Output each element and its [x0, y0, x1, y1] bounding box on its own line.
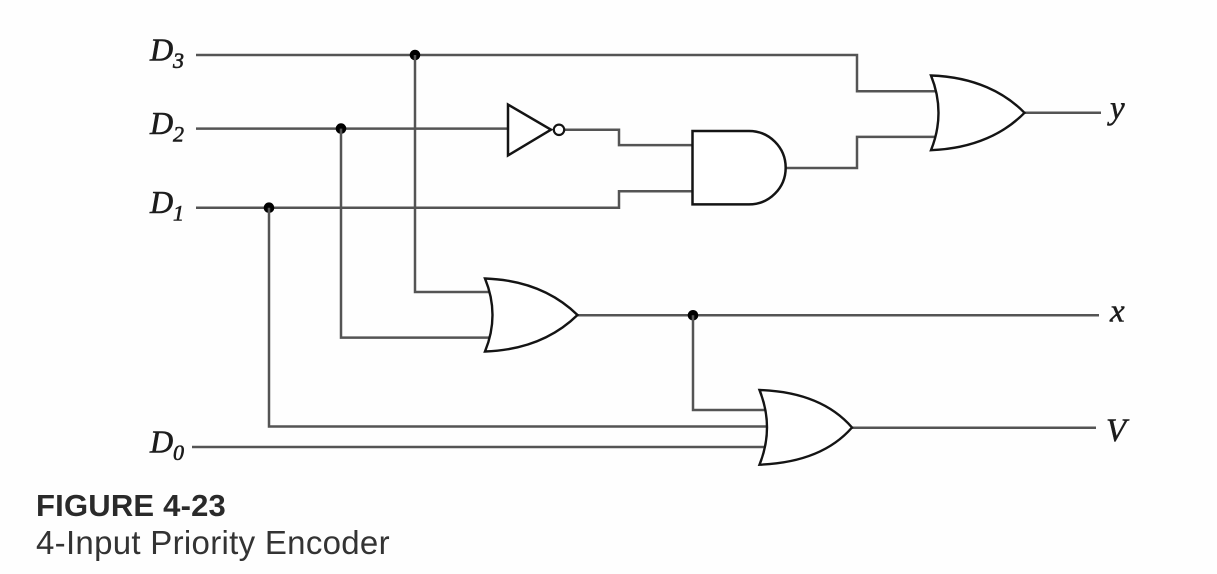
- wire OR gate U5 output to V: [850, 426, 1096, 429]
- svg-text:1: 1: [173, 201, 184, 226]
- wire D2 horizontal to inverter U1: [196, 127, 508, 130]
- svg-text:D: D: [149, 184, 173, 220]
- junction dot on D2 at vertical branch: [336, 123, 347, 134]
- caption figure title: [36, 526, 390, 559]
- svg-text:D: D: [149, 424, 173, 460]
- svg-text:V: V: [1106, 413, 1130, 449]
- input label D1: [149, 184, 184, 226]
- wire OR gate U3 output to x: [576, 314, 1099, 317]
- wire D2 branch vertical down to OR gate U3 bottom input: [341, 129, 492, 338]
- input label D0: [149, 424, 184, 466]
- OR gate U5 (output V): [760, 390, 853, 465]
- caption figure number: [36, 490, 226, 521]
- svg-text:3: 3: [172, 48, 184, 73]
- AND gate U4: [693, 131, 786, 204]
- OR gate U3 (output x): [485, 279, 578, 352]
- input label D2: [149, 105, 184, 147]
- wire D3 horizontal to OR gate U2: [196, 55, 940, 91]
- junction dot on D3 at node to vertical branch: [410, 50, 421, 61]
- wire D3 branch vertical down to OR gate U3 top input: [415, 55, 492, 292]
- wire D1 horizontal with step up to AND gate U4 bottom input: [196, 191, 697, 208]
- wire AND gate U4 output with step up to OR gate U2 bottom input: [785, 137, 940, 168]
- wire OR gate U2 output to y: [1023, 112, 1101, 115]
- svg-text:0: 0: [173, 440, 184, 465]
- OR gate U2 (output y): [931, 76, 1025, 151]
- junction dot on D1 at vertical branch: [264, 202, 275, 213]
- inverter U1 (NOT gate on D2): [508, 105, 564, 156]
- junction dot on x line at branch to OR gate U5: [688, 310, 699, 321]
- svg-text:x: x: [1109, 294, 1125, 330]
- input label D3: [149, 32, 184, 74]
- svg-text:D: D: [149, 105, 173, 141]
- wire branch from x line down to OR gate U5 top input: [693, 315, 770, 410]
- svg-text:2: 2: [173, 122, 184, 147]
- wire D1 branch vertical down to OR gate U5 middle input: [269, 208, 770, 427]
- wire D0 horizontal to OR gate U5 bottom input: [192, 446, 768, 449]
- svg-text:y: y: [1107, 91, 1125, 127]
- svg-text:D: D: [149, 32, 173, 68]
- wire inverter U1 output with step down to AND gate U4 top input: [564, 130, 697, 145]
